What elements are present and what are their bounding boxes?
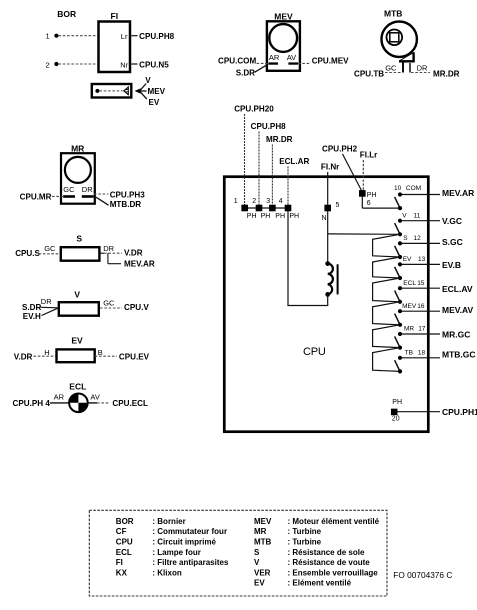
svg-text:CPU.ECL: CPU.ECL: [112, 399, 148, 408]
pin 1 PH: [241, 205, 248, 212]
svg-text:GC: GC: [44, 244, 56, 253]
svg-text:CPU.PH2: CPU.PH2: [322, 145, 358, 154]
svg-text:S.DR: S.DR: [22, 303, 41, 312]
svg-text:: Turbine: : Turbine: [288, 538, 322, 547]
wire coil to pin 4: [327, 294, 329, 305]
svg-text:AR: AR: [269, 53, 280, 62]
svg-text:MEV: MEV: [402, 303, 417, 310]
leader CPU.PH2 to pin 6: [343, 154, 362, 191]
svg-text:17: 17: [418, 326, 426, 333]
wire Nr to CPU.N5: [132, 63, 138, 65]
svg-text:MR.DR: MR.DR: [433, 69, 460, 78]
svg-text:4: 4: [279, 198, 283, 205]
svg-text:VER: VER: [254, 568, 271, 577]
svg-text:CPU.MEV: CPU.MEV: [312, 56, 349, 65]
wire to MEV: [141, 90, 147, 92]
svg-text:ECL.AR: ECL.AR: [279, 157, 309, 166]
svg-text:GC: GC: [385, 64, 397, 73]
svg-text:CPU.TB: CPU.TB: [354, 69, 384, 78]
svg-text:V.DR: V.DR: [14, 353, 33, 362]
wire CPU.COM to AR: [257, 62, 269, 64]
svg-text:CPU.PH8: CPU.PH8: [139, 32, 175, 41]
svg-text:V.GC: V.GC: [442, 216, 462, 226]
wire link: [373, 325, 400, 348]
terminal bar AR: [268, 62, 278, 64]
terminal dot: [95, 89, 99, 93]
wire DR to V.DR: [101, 252, 105, 254]
pin 3 PH: [269, 205, 276, 212]
svg-text:S.DR: S.DR: [236, 69, 255, 78]
svg-text:MEV.AR: MEV.AR: [442, 188, 474, 198]
svg-text:AV: AV: [90, 392, 99, 401]
svg-text:CPU.V: CPU.V: [124, 303, 149, 312]
wire CPU.S to S: [39, 253, 60, 255]
svg-text:FO 00704376 C: FO 00704376 C: [393, 570, 452, 580]
wire to pin 4: [287, 167, 289, 206]
svg-text:KX: KX: [116, 568, 128, 577]
motor MR body: [61, 153, 95, 204]
svg-text:1: 1: [46, 32, 50, 41]
svg-text:11: 11: [414, 212, 421, 219]
svg-text:MR.DR: MR.DR: [266, 135, 293, 144]
svg-text:12: 12: [414, 235, 422, 242]
svg-text:H: H: [44, 348, 49, 357]
svg-text:PH: PH: [261, 213, 271, 220]
svg-text:MEV: MEV: [254, 517, 272, 526]
svg-text:V: V: [74, 289, 80, 299]
svg-text:: Klixon: : Klixon: [152, 568, 181, 577]
svg-text:GC: GC: [63, 185, 75, 194]
svg-text:1: 1: [234, 198, 238, 205]
svg-text:: Résistance de voute: : Résistance de voute: [288, 558, 371, 567]
svg-text:MTB: MTB: [254, 538, 272, 547]
wire inside: [100, 90, 123, 92]
wire V.DR to EV: [34, 355, 56, 357]
svg-text:DR: DR: [103, 244, 114, 253]
svg-text:5: 5: [336, 202, 340, 209]
interlock VER box: [92, 84, 132, 98]
pin 5 N: [324, 205, 331, 212]
wire to pin 3: [271, 145, 273, 206]
pin 2 PH: [256, 205, 263, 212]
svg-text:EV: EV: [71, 335, 83, 345]
svg-text:: Moteur élément ventilé: : Moteur élément ventilé: [288, 517, 380, 526]
svg-text:CPU.PH 4: CPU.PH 4: [13, 399, 51, 408]
svg-text:S: S: [403, 235, 408, 242]
wire node2 to FI: [59, 63, 98, 65]
relay coil: [328, 264, 333, 295]
arrow to V/MEV/EV: [135, 88, 141, 93]
svg-text:: Bornier: : Bornier: [152, 517, 185, 526]
svg-text:PH: PH: [392, 399, 402, 406]
terminal bar AV: [288, 62, 298, 64]
svg-text:FI: FI: [111, 11, 119, 21]
svg-text:Nr: Nr: [120, 61, 128, 70]
terminal bar GC: [63, 195, 75, 198]
wire node1 to FI: [59, 35, 98, 37]
svg-text:CPU.S: CPU.S: [15, 249, 40, 258]
svg-text:15: 15: [417, 280, 425, 287]
wire right: [88, 402, 97, 404]
wire CPU.TB: [385, 72, 402, 74]
svg-text:FI: FI: [116, 558, 123, 567]
mounting tab: [399, 52, 414, 61]
legend box: [89, 510, 387, 596]
svg-text:V: V: [402, 212, 407, 219]
svg-text:: Circuit imprimé: : Circuit imprimé: [152, 538, 216, 547]
wire S.DR to AR: [255, 65, 268, 73]
svg-text:AR: AR: [54, 392, 65, 401]
wire N to V contact: [328, 233, 400, 235]
svg-text:6: 6: [367, 200, 371, 207]
svg-text:2: 2: [252, 198, 256, 205]
svg-text:CPU.EV: CPU.EV: [119, 353, 150, 362]
svg-text:DR: DR: [82, 185, 93, 194]
wire to pin 5: [327, 172, 329, 205]
svg-text:CPU.N5: CPU.N5: [139, 61, 169, 70]
wire EV.H to V: [42, 308, 58, 315]
svg-text:S.GC: S.GC: [442, 237, 463, 247]
svg-text:EV.B: EV.B: [442, 260, 461, 270]
svg-text:AV: AV: [287, 53, 296, 62]
svg-text:S: S: [76, 233, 82, 243]
svg-text:CPU.PH3: CPU.PH3: [110, 191, 146, 200]
wire MR.DR: [411, 72, 430, 74]
svg-text:18: 18: [418, 349, 426, 356]
motor MEV body: [267, 21, 300, 71]
wire to EV: [140, 92, 147, 99]
contact element: [124, 87, 129, 95]
svg-text:: Ensemble verrouillage: : Ensemble verrouillage: [288, 568, 379, 577]
wire DR to CPU.PH3: [94, 193, 108, 195]
svg-text:EV.H: EV.H: [23, 312, 41, 321]
wire link: [373, 234, 400, 257]
svg-text:MTB.GC: MTB.GC: [442, 349, 476, 359]
svg-text:B: B: [98, 348, 103, 357]
svg-text:: Commutateur four: : Commutateur four: [152, 527, 227, 536]
wire AV to CPU.MEV: [298, 62, 310, 64]
wire to pin 6: [362, 160, 364, 190]
svg-text:MEV: MEV: [148, 87, 166, 96]
svg-text:ECL: ECL: [403, 280, 416, 287]
svg-text:CPU: CPU: [116, 538, 133, 547]
wire CPU.MR: [52, 195, 63, 197]
terminal bar DR: [82, 195, 94, 198]
svg-text:GC: GC: [103, 298, 115, 307]
svg-text:FI.Lr: FI.Lr: [360, 151, 378, 160]
svg-text:MEV.AV: MEV.AV: [442, 305, 474, 315]
svg-text:ECL: ECL: [69, 381, 86, 391]
wire DR down: [409, 63, 411, 73]
svg-text:V: V: [145, 76, 151, 85]
wire pin20 to CPU.PH1: [397, 411, 440, 413]
svg-text:EV: EV: [254, 579, 265, 588]
svg-text:CPU.MR: CPU.MR: [20, 193, 52, 202]
svg-text:MEV: MEV: [274, 11, 293, 21]
svg-text:CF: CF: [116, 527, 127, 536]
svg-text:: Lampe four: : Lampe four: [152, 548, 200, 557]
svg-text:CPU.PH8: CPU.PH8: [251, 122, 287, 131]
wire S.DR to V: [41, 306, 58, 309]
svg-text:: Filtre antiparasites: : Filtre antiparasites: [152, 558, 229, 567]
wire link: [373, 278, 400, 302]
svg-text:MR: MR: [404, 326, 414, 333]
wire B to CPU.EV: [95, 355, 117, 357]
svg-text:BOR: BOR: [116, 517, 134, 526]
svg-text:: Résistance de sole: : Résistance de sole: [288, 548, 365, 557]
circuit-imprime CPU box: [224, 177, 428, 432]
svg-text:TB: TB: [405, 349, 413, 356]
svg-text:16: 16: [417, 303, 425, 310]
svg-text:PH: PH: [367, 192, 377, 199]
wire Lr to CPU.PH8: [132, 35, 138, 37]
pin 6 PH: [359, 190, 366, 197]
svg-text:2: 2: [46, 61, 50, 70]
svg-text:DR: DR: [417, 64, 428, 73]
svg-text:MTB: MTB: [384, 8, 402, 18]
pin 4 PH: [285, 205, 292, 212]
wire GC to CPU.V: [100, 307, 122, 309]
svg-text:20: 20: [392, 415, 400, 422]
svg-text:Lr: Lr: [121, 32, 128, 41]
svg-text:CPU: CPU: [303, 346, 326, 358]
wire to pin 2: [258, 132, 260, 206]
svg-text:CPU.PH1: CPU.PH1: [442, 407, 477, 417]
wire link: [373, 257, 400, 278]
relay core bar: [337, 264, 339, 294]
svg-text:3: 3: [266, 198, 270, 205]
wire pin6 to COM contact: [361, 196, 363, 208]
wire pin5 N down: [327, 211, 329, 264]
svg-text:13: 13: [418, 256, 426, 263]
svg-text:BOR: BOR: [57, 9, 76, 19]
wire to pin 1: [244, 114, 246, 205]
svg-text:FI.Nr: FI.Nr: [321, 163, 340, 172]
wire DR branch to MEV.AR: [107, 253, 109, 264]
svg-text:CPU.COM: CPU.COM: [218, 56, 256, 65]
pin 20 PH: [391, 409, 398, 416]
svg-text:10: 10: [394, 185, 402, 192]
svg-text:ECL.AV: ECL.AV: [442, 284, 473, 294]
wire GC down: [402, 63, 404, 73]
svg-text:MEV.AR: MEV.AR: [124, 260, 155, 269]
svg-text:CPU.PH20: CPU.PH20: [234, 105, 274, 114]
svg-text:DR: DR: [41, 297, 52, 306]
svg-text:EV: EV: [403, 256, 412, 263]
wire left: [50, 402, 69, 404]
svg-text:MR: MR: [254, 527, 267, 536]
bus wire pins 1-4: [245, 207, 288, 209]
svg-text:PH: PH: [247, 213, 257, 220]
svg-text:: Elément ventilé: : Elément ventilé: [288, 579, 352, 588]
svg-text:ECL: ECL: [116, 548, 132, 557]
svg-text:MTB.DR: MTB.DR: [110, 200, 142, 209]
svg-text:MR.GC: MR.GC: [442, 329, 470, 339]
svg-text:PH: PH: [275, 213, 285, 220]
wire to V: [140, 84, 146, 91]
wire link: [373, 348, 400, 372]
turbine MTB body: [382, 22, 417, 57]
svg-text:: Turbine: : Turbine: [288, 527, 322, 536]
svg-text:PH: PH: [289, 213, 299, 220]
svg-text:S: S: [254, 548, 260, 557]
svg-text:EV: EV: [149, 98, 160, 107]
svg-text:N: N: [322, 215, 327, 222]
wire link: [373, 302, 400, 325]
svg-text:COM: COM: [406, 185, 421, 192]
wire DR to MTB.DR: [96, 197, 109, 205]
svg-text:V: V: [254, 558, 260, 567]
svg-text:V.DR: V.DR: [124, 248, 143, 257]
